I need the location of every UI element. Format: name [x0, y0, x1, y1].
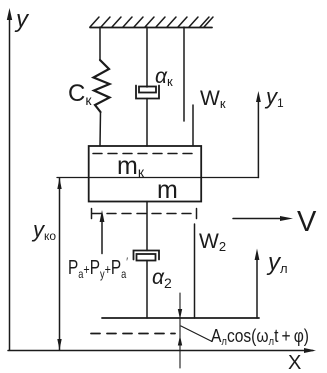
damper a2 cylinder: [134, 251, 160, 260]
spring Ck: [94, 60, 110, 112]
yko dimension line: [57, 178, 61, 350]
dashed line inside mass: [93, 153, 197, 155]
hanger wire: [183, 27, 185, 121]
y axis: [7, 8, 12, 350]
force P arrow: [100, 210, 105, 254]
dashed line below mass: [92, 209, 198, 219]
damper a2 piston: [137, 254, 156, 261]
svg-text:m: m: [157, 176, 178, 204]
svg-text:Pa+Py+Pa′: Pa+Py+Pa′: [68, 255, 129, 281]
x axis: [8, 348, 316, 353]
force W2 line: [194, 224, 196, 318]
yl axis: [255, 249, 260, 319]
damper ak cylinder: [136, 86, 159, 99]
force Wk line: [192, 105, 194, 145]
mass block: [89, 146, 202, 202]
damper a2 rod top: [146, 202, 148, 251]
svg-text:V: V: [297, 206, 317, 238]
svg-text:y: y: [14, 6, 30, 33]
platform line: [102, 317, 259, 319]
reference line through mass: [57, 177, 259, 179]
damper ak rod top: [146, 27, 148, 87]
spring wire bottom: [99, 112, 102, 146]
damper a2 rod bottom: [146, 261, 148, 319]
damper ak piston: [139, 87, 156, 93]
svg-text:X: X: [288, 352, 301, 373]
velocity V arrow: [233, 216, 293, 221]
y1 axis: [256, 91, 261, 178]
amplitude dimension line: [178, 293, 212, 368]
damper ak rod bottom: [146, 99, 148, 147]
spring suspension wire top: [99, 27, 101, 60]
dashed equilibrium line: [91, 333, 175, 335]
ceiling: [90, 17, 213, 28]
